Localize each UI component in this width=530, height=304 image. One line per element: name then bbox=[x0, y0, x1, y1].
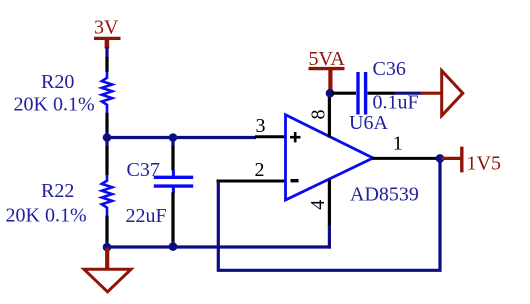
wire divider vertical through junction bbox=[105, 132, 108, 148]
wire pin 4 to ground rail bbox=[328, 226, 331, 249]
svg-text:3: 3 bbox=[256, 115, 266, 137]
port arrow (off-sheet connector) bbox=[421, 71, 463, 116]
svg-text:C37: C37 bbox=[127, 159, 160, 181]
svg-text:R20: R20 bbox=[41, 71, 74, 93]
svg-text:22uF: 22uF bbox=[126, 205, 167, 227]
svg-text:AD8539: AD8539 bbox=[350, 184, 419, 206]
op-amp U1 pin 4 line bbox=[328, 180, 331, 227]
op-amp U6A triangle bbox=[286, 115, 374, 200]
wire top rail (divider tap to op-amp) bbox=[105, 136, 256, 139]
capacitor C37 bbox=[154, 146, 193, 248]
power port 3V bbox=[94, 17, 121, 49]
svg-text:1: 1 bbox=[393, 133, 403, 155]
resistor R1 (R20) bbox=[102, 57, 112, 135]
svg-text:20K 0.1%: 20K 0.1% bbox=[14, 94, 95, 116]
wire 3V to R20 bbox=[105, 47, 108, 59]
svg-text:3V: 3V bbox=[94, 17, 119, 39]
op-amp U1 pin 2 line bbox=[217, 180, 286, 183]
op-amp minus input marker bbox=[291, 179, 299, 182]
resistor R2 (R22) bbox=[102, 146, 112, 248]
svg-text:C36: C36 bbox=[373, 58, 406, 80]
op-amp U1 pin 8 line bbox=[328, 94, 331, 138]
ground symbol bbox=[84, 248, 131, 292]
svg-text:4: 4 bbox=[307, 200, 329, 210]
wire feedback loop bbox=[218, 158, 440, 270]
svg-text:0.1uF: 0.1uF bbox=[373, 92, 419, 114]
node junction C37 bottom bbox=[169, 242, 178, 251]
node junction ground rail left bbox=[103, 243, 112, 252]
svg-text:U6A: U6A bbox=[349, 112, 388, 134]
op-amp U1 pin 1 output line bbox=[372, 157, 439, 160]
wire C36 to port bbox=[394, 92, 422, 95]
net label 1V5 bbox=[441, 147, 501, 175]
op-amp U1 pin 3 line bbox=[255, 135, 286, 138]
node junction divider tap bbox=[103, 133, 112, 142]
node junction output bbox=[436, 154, 445, 163]
svg-text:R22: R22 bbox=[41, 180, 74, 202]
svg-text:1V5: 1V5 bbox=[467, 153, 501, 175]
wire bottom ground rail bbox=[107, 245, 331, 248]
capacitor C36 bbox=[332, 72, 395, 115]
svg-text:5VA: 5VA bbox=[309, 48, 346, 70]
wire C37 top lead bbox=[171, 137, 174, 147]
op-amp plus input marker bbox=[290, 132, 301, 142]
svg-text:20K 0.1%: 20K 0.1% bbox=[6, 205, 87, 227]
power port 5VA bbox=[309, 48, 346, 92]
svg-text:2: 2 bbox=[255, 159, 265, 181]
node junction C37 top bbox=[169, 133, 178, 142]
node junction 5VA / pin 8 bbox=[326, 89, 335, 98]
svg-text:8: 8 bbox=[307, 110, 329, 120]
